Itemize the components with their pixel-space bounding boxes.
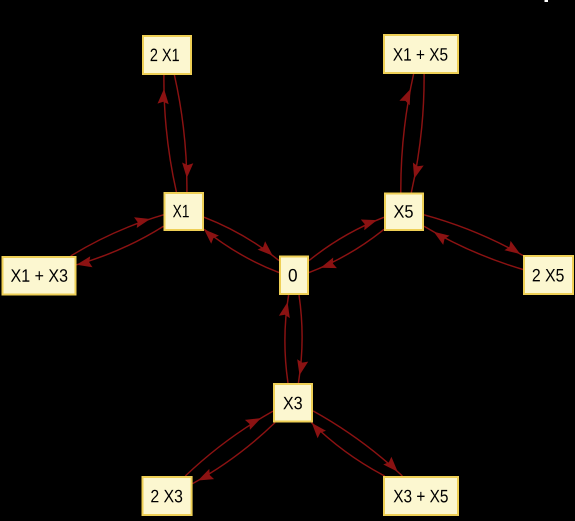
white mark top right (545, 0, 549, 2)
edge 2 X5 to X5 (424, 226, 523, 269)
edge 2 X3 to X3 (185, 411, 273, 476)
edge X1 + X3 to X1 (71, 215, 164, 256)
node 2 X1 (143, 36, 191, 74)
node 2 X5 (524, 256, 573, 294)
edge 0 to X5 (309, 217, 384, 260)
edge X3 to X3 + X5 (313, 411, 402, 476)
node 2 X3 (143, 477, 192, 515)
edge X1 to X1 + X3 (77, 226, 164, 267)
edge X1 to 0 (204, 217, 279, 260)
node X3 (274, 384, 312, 422)
edge X3 to 0 (279, 295, 290, 383)
node X3 + X5 (384, 477, 458, 515)
edge X3 + X5 to X3 (311, 423, 384, 477)
node X1 + X3 (3, 257, 76, 295)
node X5 (385, 194, 423, 231)
edge 0 to X1 (204, 229, 279, 272)
node 0 (280, 257, 308, 295)
edge X5 to 2 X5 (424, 215, 523, 256)
edge X1 + X5 to X5 (411, 74, 424, 193)
edge X5 to 0 (309, 229, 384, 272)
edge 2 X1 to X1 (174, 75, 193, 192)
edge X1 to 2 X1 (158, 75, 177, 192)
edge 0 to X3 (297, 295, 308, 383)
node X1 (165, 193, 204, 230)
edge X5 to X1 + X5 (399, 74, 413, 193)
node X1 + X5 (384, 35, 458, 73)
edge X3 to 2 X3 (193, 423, 276, 484)
